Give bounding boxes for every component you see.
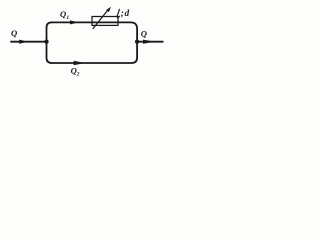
- wire inlet Q: [10, 41, 45, 43]
- svg-text:1: 1: [66, 15, 69, 21]
- arrowhead Q2: [74, 61, 85, 65]
- label l;d (throttle parameters): letter l drawn as script ell: [117, 9, 119, 17]
- svg-text:2: 2: [76, 72, 80, 78]
- wire bottom branch Q2: [51, 62, 132, 64]
- svg-text:Q: Q: [141, 28, 147, 38]
- svg-text:Q: Q: [11, 28, 17, 38]
- wire left rail with corners: [47, 22, 52, 63]
- arrowhead Q1: [70, 20, 79, 24]
- throttle (adjustable restrictor) rectangle: [92, 17, 118, 26]
- svg-text:;d: ;d: [121, 9, 130, 19]
- wire top branch Q1: [51, 21, 131, 23]
- node left junction: [44, 40, 48, 44]
- wire outlet Q: [137, 41, 163, 43]
- arrowhead outlet Q: [143, 40, 155, 44]
- node right junction: [135, 40, 139, 44]
- throttle adjustment arrowhead: [106, 7, 111, 12]
- svg-text:Q: Q: [60, 9, 66, 19]
- throttle adjustment diagonal arrow shaft: [93, 10, 108, 29]
- arrowhead inlet Q: [19, 40, 28, 44]
- wire right rail with corners: [131, 22, 138, 63]
